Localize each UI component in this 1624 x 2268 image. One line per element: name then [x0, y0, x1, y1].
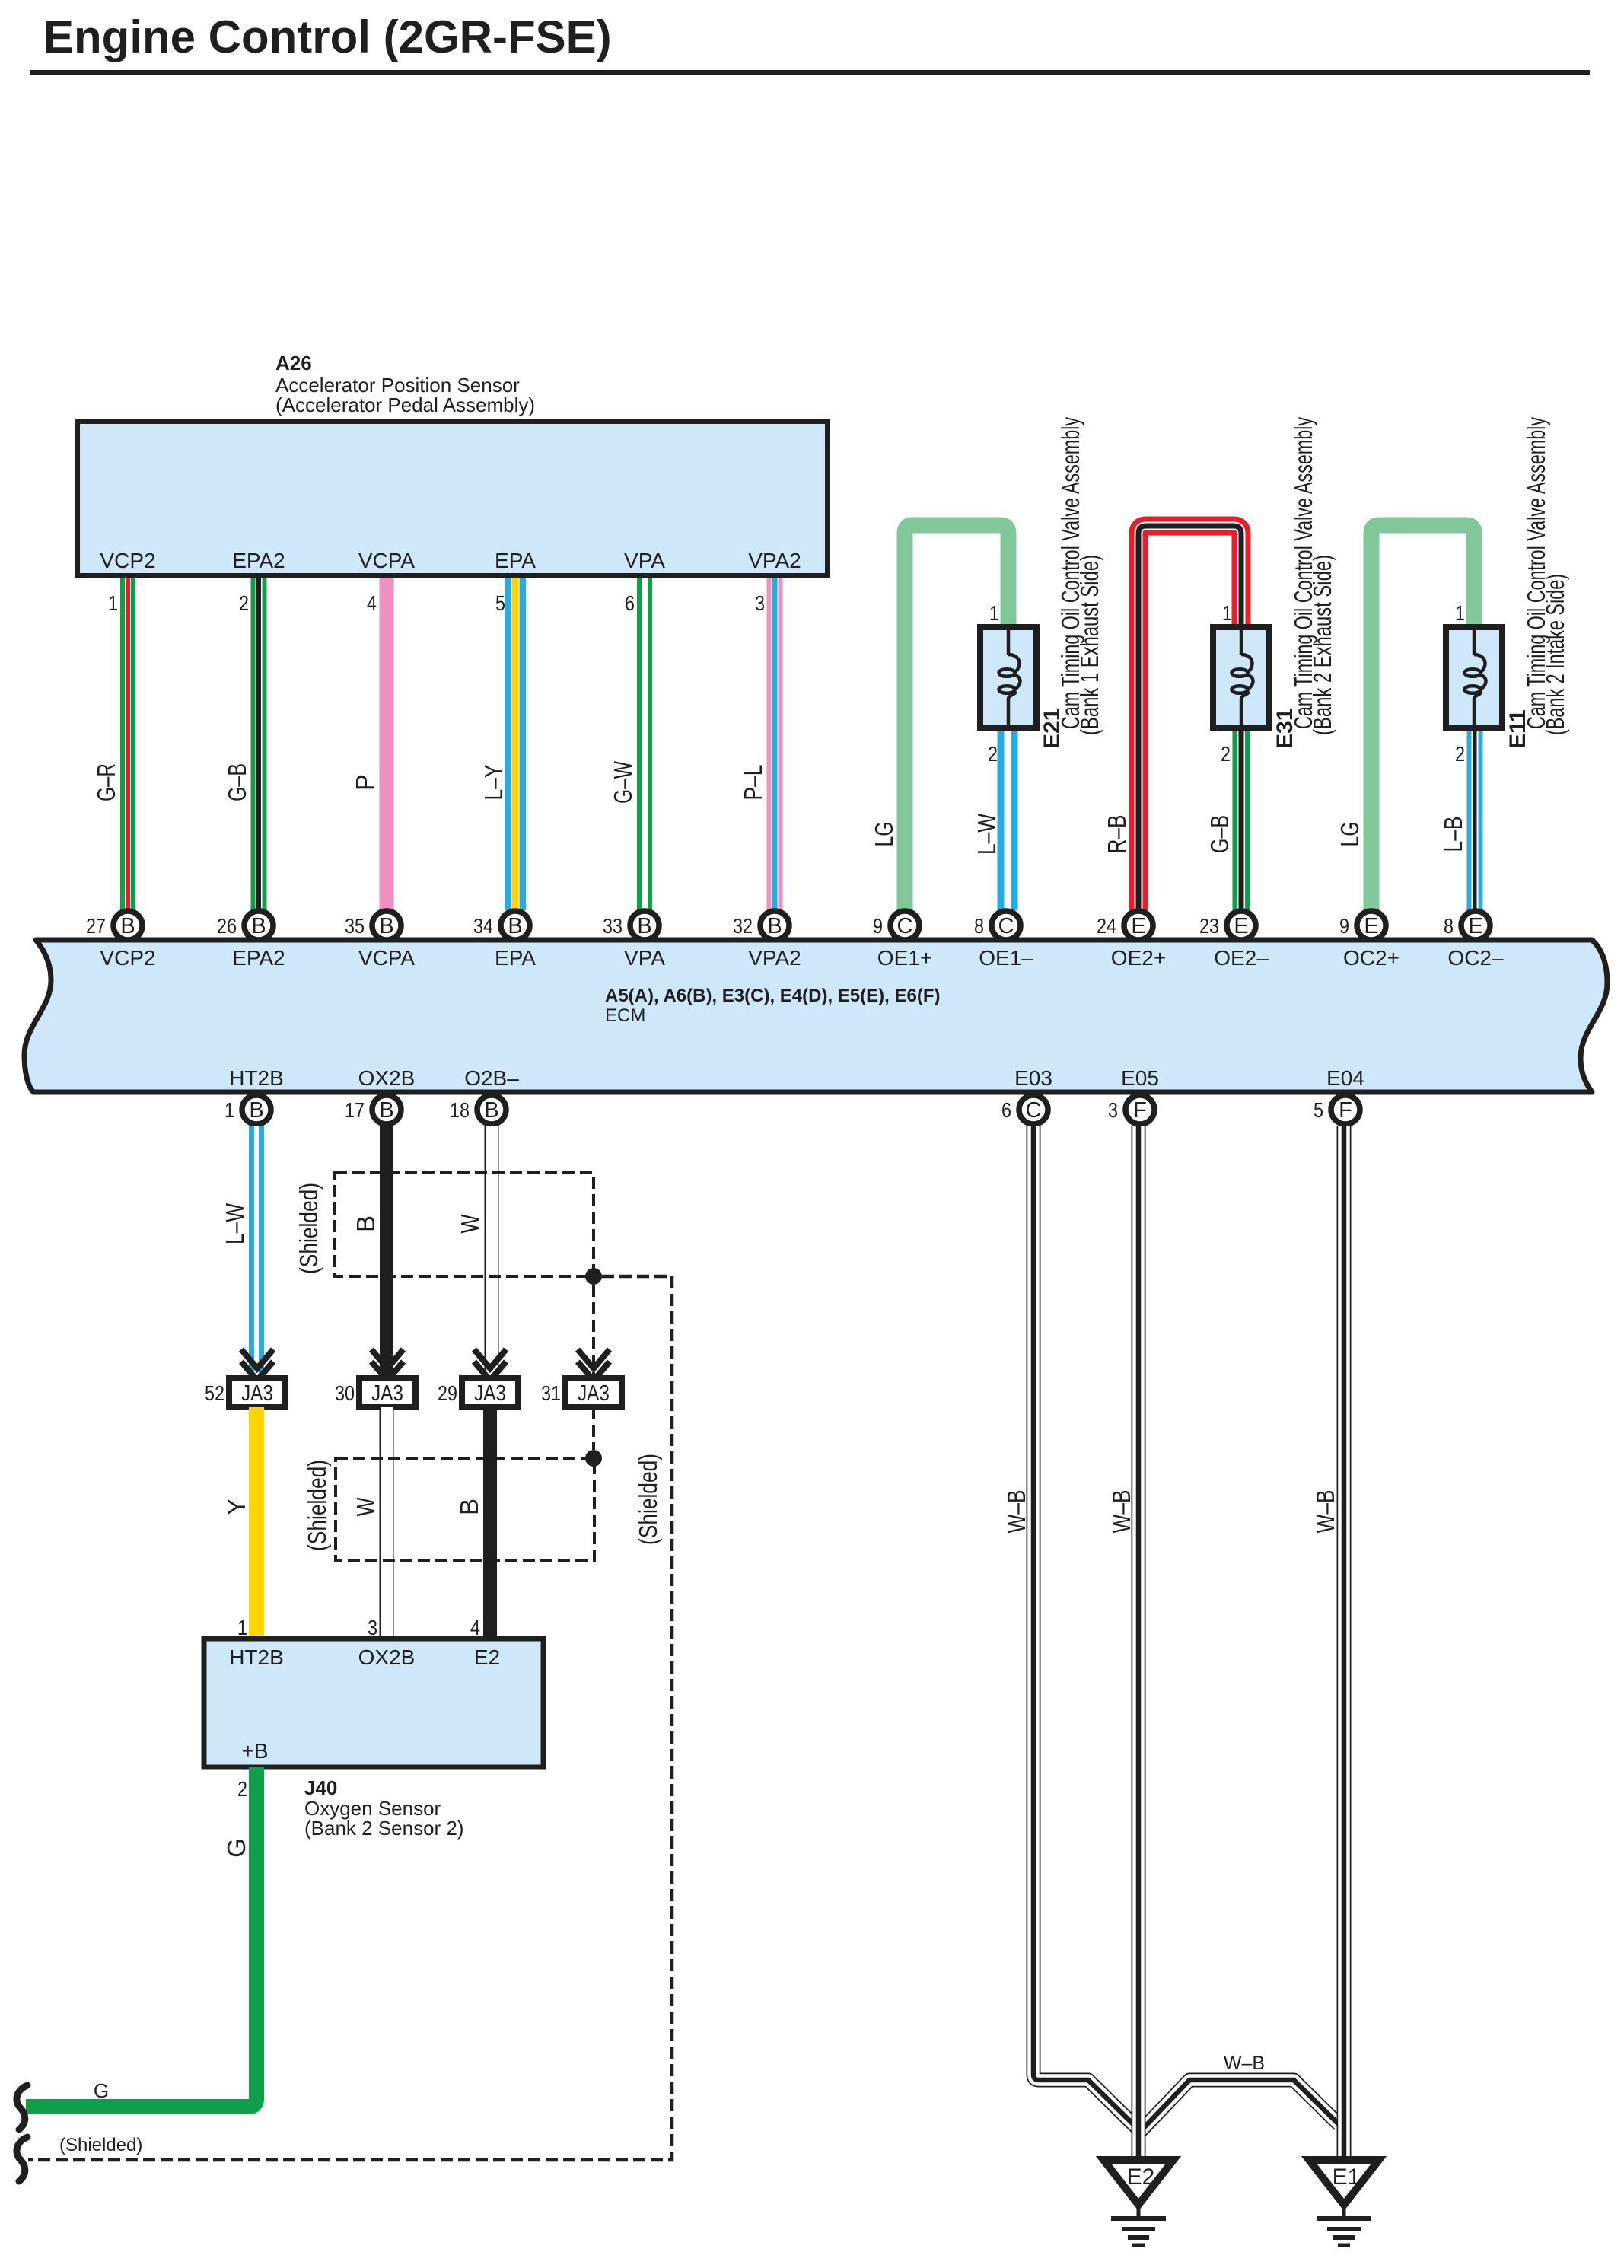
svg-text:W: W	[456, 1214, 484, 1234]
svg-text:1: 1	[224, 1098, 234, 1122]
svg-text:3: 3	[1108, 1098, 1118, 1122]
svg-text:B: B	[379, 1098, 393, 1123]
svg-text:E1: E1	[1333, 2164, 1361, 2190]
svg-text:EPA2: EPA2	[232, 946, 285, 970]
svg-text:VPA2: VPA2	[748, 549, 801, 572]
svg-text:1: 1	[108, 591, 118, 615]
svg-text:VCPA: VCPA	[358, 946, 415, 970]
shield dashed wire JA3 31 to lower shield box	[592, 1407, 595, 1450]
ECM connector pin 18 B (O2B–)	[450, 1095, 506, 1124]
wire LG from ECM OE1+ pin 9 to E21 pin 1	[905, 525, 1008, 910]
svg-text:VPA: VPA	[624, 549, 665, 572]
svg-text:(Bank 2 Exhaust Side): (Bank 2 Exhaust Side)	[1308, 555, 1336, 735]
svg-text:JA3: JA3	[241, 1381, 273, 1406]
junction connector JA3 pin 30	[335, 1349, 416, 1407]
svg-text:G–B: G–B	[1205, 815, 1234, 853]
svg-text:E: E	[1131, 914, 1145, 938]
svg-text:2: 2	[1221, 742, 1231, 766]
svg-text:EPA: EPA	[495, 549, 536, 572]
svg-text:2: 2	[1455, 742, 1465, 766]
svg-text:4: 4	[470, 1616, 480, 1639]
wire G–W from A26 VPA pin 6 to ECM pin 33	[637, 578, 652, 910]
wire G–R from A26 VCP2 pin 1 to ECM pin 27	[120, 578, 135, 910]
svg-text:E05: E05	[1121, 1066, 1159, 1090]
wire W from ECM O2B– pin 18 to junction JA3 pin 29	[485, 1126, 499, 1377]
ECM connector pin 35 B (VCPA)	[345, 911, 401, 940]
ECM connector pin 24 E (OE2+)	[1097, 911, 1153, 940]
junction connector JA3 pin 31 (shield)	[541, 1349, 622, 1407]
svg-text:B: B	[637, 914, 651, 938]
svg-text:W–B: W–B	[1224, 2053, 1265, 2074]
svg-text:O2B–: O2B–	[464, 1066, 519, 1090]
svg-text:LG: LG	[1336, 822, 1364, 847]
wire Y from JA3 pin 52 to J40 HT2B pin 1	[249, 1407, 264, 1639]
solenoid valve E21 Cam Timing Oil Control Valve (Bank 1 Exhaust)	[980, 627, 1036, 728]
svg-text:JA3: JA3	[474, 1381, 506, 1406]
svg-text:9: 9	[1339, 914, 1349, 938]
wire W–B from ECM E05 pin 3 to ground E2	[1132, 1126, 1146, 2158]
svg-text:(Accelerator Pedal Assembly): (Accelerator Pedal Assembly)	[275, 393, 535, 416]
ECM connector pin 32 B (VPA2)	[733, 911, 789, 940]
svg-text:(Bank 2 Intake Side): (Bank 2 Intake Side)	[1541, 574, 1569, 735]
ECM connector pin 8 C (OE1–)	[974, 911, 1021, 940]
svg-text:E: E	[1234, 914, 1248, 938]
svg-text:VCP2: VCP2	[100, 946, 155, 970]
svg-text:(Shielded): (Shielded)	[59, 2135, 142, 2155]
svg-text:2: 2	[237, 1777, 247, 1801]
solenoid valve E31 Cam Timing Oil Control Valve (Bank 2 Exhaust)	[1213, 627, 1269, 728]
svg-text:18: 18	[450, 1098, 470, 1122]
ECM connector pin 3 F (E05)	[1108, 1095, 1154, 1124]
wire W from JA3 pin 30 to J40 OX2B pin 3	[380, 1407, 394, 1639]
ECM connector pin 8 E (OC2–)	[1444, 911, 1490, 940]
svg-text:OE1+: OE1+	[877, 946, 932, 970]
svg-text:VPA2: VPA2	[748, 946, 801, 970]
svg-text:F: F	[1339, 1098, 1352, 1123]
svg-text:26: 26	[217, 914, 237, 938]
svg-text:R–B: R–B	[1103, 815, 1131, 854]
svg-text:J40: J40	[304, 1776, 337, 1799]
wire B from ECM OX2B pin 17 to junction JA3 pin 30	[380, 1126, 393, 1377]
svg-text:B: B	[455, 1499, 483, 1515]
svg-text:W–B: W–B	[1311, 1490, 1339, 1534]
svg-text:1: 1	[989, 601, 999, 625]
wire W–B from ECM E03 pin 6 to ground E2	[1033, 1126, 1137, 2128]
svg-text:Y: Y	[222, 1499, 250, 1515]
svg-text:2: 2	[988, 742, 998, 766]
solenoid valve E11 Cam Timing Oil Control Valve (Bank 2 Intake)	[1446, 627, 1502, 728]
svg-text:F: F	[1133, 1098, 1147, 1123]
wire P from A26 VCPA pin 4 to ECM pin 35	[380, 578, 394, 910]
svg-text:27: 27	[86, 914, 106, 938]
svg-text:(Bank 2 Sensor 2): (Bank 2 Sensor 2)	[304, 1817, 464, 1840]
wire L–B from E11 pin 2 to ECM OC2– pin 8	[1467, 727, 1483, 910]
ECM connector pin 5 F (E04)	[1314, 1095, 1360, 1124]
svg-text:32: 32	[733, 914, 753, 938]
junction connector JA3 pin 29	[438, 1349, 518, 1407]
svg-text:1: 1	[1455, 601, 1465, 625]
ground E1	[1309, 2160, 1379, 2245]
ECM connector pin 6 C (E03)	[1001, 1095, 1048, 1124]
svg-text:JA3: JA3	[578, 1381, 610, 1406]
svg-text:9: 9	[873, 914, 883, 938]
svg-text:OE2+: OE2+	[1111, 946, 1166, 970]
wire L–W from E21 pin 2 to ECM OE1– pin 8	[998, 727, 1018, 910]
svg-text:G: G	[222, 1838, 250, 1858]
svg-text:2: 2	[239, 591, 249, 615]
svg-text:G–W: G–W	[609, 760, 637, 804]
svg-text:B: B	[249, 1098, 263, 1123]
svg-text:LG: LG	[870, 822, 898, 847]
svg-text:17: 17	[345, 1098, 365, 1122]
svg-text:(Shielded): (Shielded)	[634, 1454, 662, 1545]
wire G from J40 +B pin 2 to harness break	[26, 1767, 256, 2107]
wire LG from ECM OC2+ pin 9 to E11 pin 1	[1371, 525, 1474, 910]
svg-text:JA3: JA3	[371, 1381, 403, 1406]
wire G–B from E31 pin 2 to ECM OE2– pin 23	[1233, 727, 1250, 910]
svg-text:24: 24	[1097, 914, 1116, 938]
svg-text:HT2B: HT2B	[229, 1066, 284, 1090]
svg-text:+B: +B	[241, 1739, 268, 1763]
svg-text:B: B	[251, 914, 266, 938]
shield junction node at upper box corner	[585, 1268, 602, 1285]
svg-text:W–B: W–B	[1002, 1490, 1030, 1534]
svg-text:(Bank 1 Exhaust Side): (Bank 1 Exhaust Side)	[1075, 555, 1103, 735]
svg-text:VCP2: VCP2	[100, 549, 155, 572]
title underline	[30, 70, 1590, 75]
ECM connector pin 33 B (VPA)	[603, 911, 659, 940]
svg-text:E03: E03	[1014, 1066, 1052, 1090]
svg-text:35: 35	[345, 914, 365, 938]
ECM connector pin 23 E (OE2–)	[1199, 911, 1256, 940]
svg-text:OE2–: OE2–	[1214, 946, 1269, 970]
junction connector JA3 pin 52	[205, 1349, 285, 1407]
svg-text:OX2B: OX2B	[358, 1066, 416, 1090]
svg-text:E: E	[1364, 914, 1378, 938]
svg-text:G–B: G–B	[223, 763, 251, 801]
shield dashed box (upper, around B and W wires)	[335, 1173, 594, 1276]
svg-text:30: 30	[335, 1381, 355, 1405]
svg-text:C: C	[1026, 1098, 1042, 1123]
wire P–L from A26 VPA2 pin 3 to ECM pin 32	[767, 578, 783, 910]
svg-text:3: 3	[755, 591, 765, 615]
ECM connector pin 27 B (VCP2)	[86, 911, 142, 940]
svg-text:31: 31	[541, 1381, 561, 1405]
svg-text:3: 3	[368, 1616, 377, 1639]
ECM connector pin 26 B (EPA2)	[217, 911, 273, 940]
svg-text:L–B: L–B	[1439, 817, 1467, 852]
svg-text:HT2B: HT2B	[229, 1645, 284, 1669]
svg-text:B: B	[767, 914, 782, 938]
svg-text:A26: A26	[275, 352, 312, 374]
shield drain dashed wire to JA3 pin 31	[592, 1285, 595, 1377]
svg-text:L–W: L–W	[221, 1202, 249, 1244]
svg-text:E2: E2	[474, 1645, 500, 1669]
ECM connector pin 9 C (OE1+)	[873, 911, 919, 940]
svg-text:OX2B: OX2B	[358, 1645, 416, 1669]
svg-text:33: 33	[603, 914, 623, 938]
svg-text:OC2+: OC2+	[1343, 946, 1400, 970]
harness break squiggle (green wire)	[17, 2085, 27, 2129]
svg-text:VCPA: VCPA	[358, 549, 415, 572]
svg-text:E2: E2	[1127, 2164, 1155, 2190]
ECM box A5(A), A6(B), E3(C), E4(D), E5(E), E6(F)	[24, 940, 1607, 1092]
svg-text:ECM: ECM	[605, 1005, 645, 1026]
svg-text:OE1–: OE1–	[979, 946, 1033, 970]
wire B from JA3 pin 29 to J40 E2 pin 4	[483, 1407, 497, 1639]
svg-text:OC2–: OC2–	[1447, 946, 1504, 970]
svg-text:W–B: W–B	[1107, 1490, 1135, 1534]
svg-text:P–L: P–L	[739, 765, 767, 801]
wire W–B from ECM E04 pin 5 to ground E1	[1337, 1126, 1352, 2158]
svg-text:E04: E04	[1326, 1066, 1364, 1090]
svg-text:G: G	[94, 2079, 109, 2102]
connector box J40 Oxygen Sensor	[204, 1639, 543, 1767]
svg-text:B: B	[120, 914, 135, 938]
svg-text:1: 1	[1222, 601, 1232, 625]
svg-text:5: 5	[1314, 1098, 1323, 1122]
wire L–Y from A26 EPA pin 5 to ECM pin 34	[505, 578, 526, 910]
svg-text:52: 52	[205, 1381, 224, 1405]
svg-text:(Shielded): (Shielded)	[303, 1460, 331, 1551]
svg-text:B: B	[352, 1215, 380, 1232]
wire R–B from ECM OE2+ pin 24 to E31 pin 1	[1138, 526, 1241, 910]
svg-text:EPA2: EPA2	[232, 549, 285, 572]
svg-text:29: 29	[438, 1381, 457, 1405]
svg-text:1: 1	[237, 1616, 247, 1639]
svg-text:G–R: G–R	[92, 763, 120, 801]
ECM connector pin 9 E (OC2+)	[1339, 911, 1386, 940]
shield dashed box (lower, around W and B wires)	[336, 1458, 594, 1560]
svg-text:EPA: EPA	[495, 946, 536, 970]
svg-text:C: C	[897, 914, 913, 938]
svg-text:C: C	[998, 914, 1014, 938]
svg-text:P: P	[351, 774, 379, 791]
shield junction node at lower box corner	[585, 1450, 602, 1467]
harness break squiggle (shield)	[17, 2137, 27, 2181]
wire G–B from A26 EPA2 pin 2 to ECM pin 26	[251, 578, 267, 910]
svg-text:(Shielded): (Shielded)	[295, 1183, 323, 1274]
svg-text:E: E	[1468, 914, 1482, 938]
wire W–B link between E2 and E1 grounds	[1141, 2080, 1339, 2131]
svg-text:6: 6	[625, 591, 635, 615]
svg-text:L–Y: L–Y	[479, 765, 508, 801]
svg-text:B: B	[379, 914, 393, 938]
ECM connector pin 1 B (HT2B)	[224, 1095, 271, 1124]
svg-text:VPA: VPA	[624, 946, 665, 970]
svg-text:34: 34	[473, 914, 493, 938]
svg-text:B: B	[508, 914, 522, 938]
connector box A26 Accelerator Position Sensor	[78, 422, 827, 575]
svg-text:23: 23	[1199, 914, 1219, 938]
svg-text:4: 4	[367, 591, 377, 615]
svg-text:5: 5	[495, 591, 505, 615]
wire L–W from ECM HT2B pin 1 to junction JA3 pin 52	[249, 1126, 264, 1377]
svg-text:6: 6	[1001, 1098, 1011, 1122]
ECM connector pin 34 B (EPA)	[473, 911, 530, 940]
svg-text:8: 8	[1444, 914, 1454, 938]
ground E2	[1103, 2160, 1173, 2245]
svg-text:8: 8	[974, 914, 984, 938]
shield dashed wire from junction to right vertical run	[28, 1276, 672, 2160]
svg-text:A5(A), A6(B), E3(C), E4(D), E5: A5(A), A6(B), E3(C), E4(D), E5(E), E6(F)	[605, 986, 940, 1006]
ECM connector pin 17 B (OX2B)	[345, 1095, 401, 1124]
svg-text:B: B	[484, 1098, 498, 1123]
svg-text:Engine Control (2GR-FSE): Engine Control (2GR-FSE)	[43, 11, 612, 62]
svg-text:W: W	[352, 1497, 380, 1517]
svg-text:L–W: L–W	[973, 813, 1001, 855]
